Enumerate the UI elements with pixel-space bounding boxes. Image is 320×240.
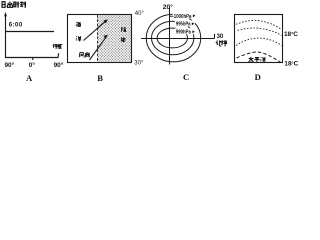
svg-text:90°: 90° — [5, 61, 15, 69]
svg-text:990hPa: 990hPa — [176, 30, 192, 36]
svg-text:0°: 0° — [29, 61, 36, 69]
svg-text:B: B — [97, 73, 103, 83]
svg-text:18°C: 18°C — [284, 60, 298, 67]
svg-text:20°: 20° — [163, 3, 173, 11]
svg-text:18°C: 18°C — [284, 31, 298, 38]
svg-text:90°: 90° — [54, 61, 64, 69]
svg-text:C: C — [183, 72, 189, 82]
svg-text:40°: 40° — [135, 11, 145, 17]
svg-text:30°: 30° — [134, 60, 144, 66]
svg-text:995hPa: 995hPa — [176, 22, 191, 28]
svg-text:30: 30 — [217, 34, 224, 40]
svg-text:1000hPa: 1000hPa — [174, 14, 192, 20]
svg-text:A: A — [26, 73, 33, 83]
svg-text:6:00: 6:00 — [9, 22, 23, 28]
svg-text:D: D — [255, 72, 261, 82]
